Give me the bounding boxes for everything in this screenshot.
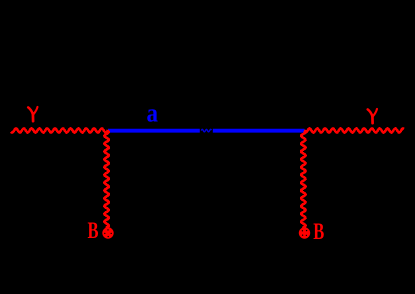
external photon line to B, right (vertical wavy) xyxy=(301,131,305,229)
external field vertex right (crossed circle) xyxy=(299,227,310,238)
axion propagator a, left segment (blue line) xyxy=(108,129,200,133)
label gamma right xyxy=(368,109,377,123)
label gamma left xyxy=(28,107,37,121)
svg-text:B: B xyxy=(313,219,324,244)
svg-text:B: B xyxy=(88,218,99,243)
axion propagator a, right segment (blue line) xyxy=(213,129,305,133)
small squiggle in middle of axion line xyxy=(201,129,211,131)
external field vertex left (crossed circle) xyxy=(102,227,113,238)
svg-text:a: a xyxy=(147,99,159,128)
external photon line to B, left (vertical wavy) xyxy=(104,131,108,229)
photon gamma left (wavy line) xyxy=(11,129,108,133)
photon gamma right (wavy line) xyxy=(305,129,405,133)
